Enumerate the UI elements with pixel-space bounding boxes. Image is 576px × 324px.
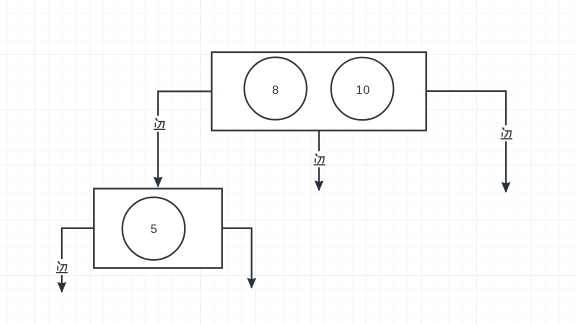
svg-text:10: 10 xyxy=(356,83,371,97)
edge label E3 (bian) xyxy=(499,125,514,141)
wire edge E4 from left of bottom rect down xyxy=(62,228,94,292)
arrowhead E4 xyxy=(57,282,66,293)
bottom container rectangle xyxy=(94,189,222,268)
edge label E4 (bian) xyxy=(54,259,69,275)
node circle 10 xyxy=(331,57,393,119)
arrowhead E1 xyxy=(153,177,162,188)
arrowhead E3 xyxy=(501,182,510,193)
wire edge E3 from right of top rect down xyxy=(426,91,506,192)
wire edge E5 from right of bottom rect down xyxy=(222,228,252,288)
top container rectangle xyxy=(212,52,427,130)
node circle 8 xyxy=(244,57,306,119)
wire edge E1 from left of top rect down to top of bottom rect xyxy=(158,91,212,186)
arrowhead E5 xyxy=(247,278,256,289)
wire edge E2 from bottom of top rect down xyxy=(318,131,320,191)
svg-text:8: 8 xyxy=(272,83,279,97)
arrowhead E2 xyxy=(314,181,323,192)
edge label E2 (bian) xyxy=(312,151,327,167)
node circle 5 xyxy=(122,197,185,260)
svg-text:5: 5 xyxy=(150,222,157,236)
edge label E1 (bian) xyxy=(152,116,167,132)
